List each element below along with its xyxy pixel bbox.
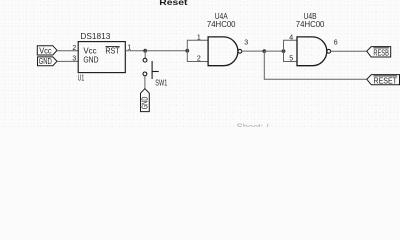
- svg-text:3: 3: [244, 39, 248, 46]
- switch SW1 contact circle top: [143, 58, 147, 62]
- wire junction C to U4B riser junction: [264, 50, 283, 52]
- svg-text:Reset: Reset: [159, 0, 188, 7]
- svg-text:3: 3: [72, 56, 76, 63]
- junction dot C: [262, 49, 266, 53]
- svg-text:1: 1: [127, 44, 131, 51]
- switch SW1 contact circle bottom: [143, 72, 147, 76]
- switch SW1 actuator stem: [152, 71, 159, 73]
- svg-text:74HC00: 74HC00: [296, 19, 325, 29]
- svg-text:GND: GND: [83, 55, 98, 65]
- global label GND (left): [38, 57, 58, 66]
- svg-text:4: 4: [289, 34, 293, 41]
- svg-text:Sheet: /: Sheet: /: [237, 122, 270, 127]
- wire riser to U4B pin 4: [284, 40, 298, 51]
- global label RESB: [367, 47, 391, 57]
- wire riser to U4B pin 5: [284, 51, 298, 61]
- svg-text:Vcc: Vcc: [39, 46, 51, 56]
- IC U1 DS1813 body: [78, 42, 125, 73]
- svg-text:2: 2: [197, 56, 201, 63]
- svg-text:GND: GND: [39, 56, 52, 66]
- svg-text:74HC00: 74HC00: [207, 19, 236, 29]
- wire U4A pin 3 output: [242, 50, 264, 52]
- wire riser to U4A pin 2: [187, 51, 208, 62]
- svg-text:U1: U1: [78, 73, 85, 82]
- switch SW1 actuator bar: [151, 61, 153, 79]
- global label Vcc: [37, 46, 57, 55]
- svg-text:5: 5: [289, 56, 293, 63]
- wire U4B pin 6 output to RESB: [331, 50, 367, 52]
- global label GND (bottom, rotated): [141, 89, 150, 112]
- wire junction A to U4A junction: [145, 50, 187, 52]
- global label RESET: [367, 75, 400, 85]
- wire SW1 to GND label: [144, 76, 146, 89]
- wire GND to U1 pin 3: [57, 60, 78, 62]
- svg-text:DS1813: DS1813: [80, 31, 110, 41]
- U4B output bubble: [327, 49, 331, 53]
- NAND gate U4B body: [297, 37, 327, 66]
- svg-text:RESET: RESET: [374, 75, 398, 85]
- wire U1 pin 1 to junction: [125, 50, 145, 52]
- wire riser to U4A pin 1: [187, 40, 208, 51]
- wire junction C down to RESET row: [264, 51, 367, 79]
- wire Vcc to U1 pin 2: [57, 50, 78, 52]
- wire junction A down to SW1: [144, 51, 146, 59]
- background dot grid: [0, 0, 400, 127]
- junction dot A: [143, 49, 147, 53]
- svg-text:RST: RST: [105, 46, 119, 56]
- svg-text:6: 6: [334, 39, 338, 46]
- svg-text:1: 1: [197, 34, 201, 41]
- junction dot D: [282, 49, 286, 53]
- svg-text:2: 2: [72, 45, 76, 52]
- U4A output bubble: [238, 49, 242, 53]
- svg-text:SW1: SW1: [155, 77, 167, 87]
- junction dot B: [185, 49, 189, 53]
- svg-text:RESB: RESB: [373, 47, 389, 57]
- NAND gate U4A body: [208, 37, 238, 66]
- svg-text:GND: GND: [141, 96, 150, 109]
